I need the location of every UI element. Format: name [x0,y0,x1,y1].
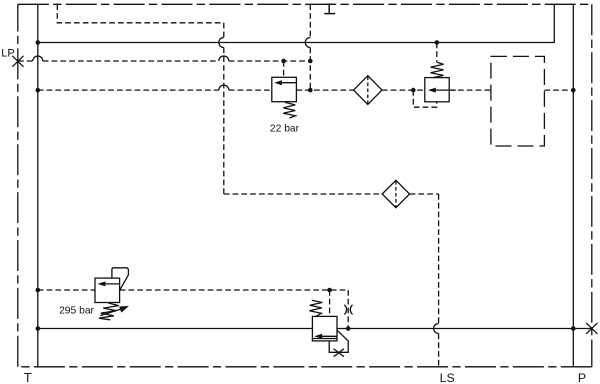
valve V3 flow arrow [100,283,119,285]
wire: pilot stub to valve V1 top [283,61,285,77]
wire: spring pilot line to valve V2 [436,43,438,63]
node: V2 drain tap [411,88,416,93]
enclosure border top edge (dash-dot) [18,3,592,5]
node: T line / pilot y=290 [36,288,41,293]
valve V3 (295 bar relief) body [95,278,120,302]
wire: pilot line vertical x=223.8 (hops over main line) [223,23,225,194]
node: P line / bottom main [571,326,576,331]
wire hop: LP line over T line [33,56,43,61]
valve V4 bypass loop with orifice [329,330,348,352]
wire: pilot line from block B1 to P line [544,89,573,91]
wire: top main solid line to P side [38,4,555,42]
measuring port M symbol (top) [324,4,335,13]
wire hop: LP line over pilot vertical [219,56,229,61]
wire: bottom pilot line y=290 (T line to valve V3) [38,289,95,291]
wire hop: pilot vertical over top main line [305,38,310,48]
valve V4 spring [309,300,322,316]
wire: pilot stub to valve V4 top [329,290,331,316]
wire hop: pilot y=90 over pilot vertical [219,85,229,90]
valve V2 spring [431,62,444,77]
svg-text:LP: LP [1,47,14,59]
restrictor (venturi) on pilot drop [344,305,352,315]
wire: pilot drop to restrictor and bottom main line [347,290,349,329]
node: block B1 output on P line [571,88,576,93]
wire: bottom pilot line y=290 (valve V3 to corner) [120,289,349,291]
svg-text:P: P [578,371,586,384]
port P plug X symbol [586,323,597,334]
node: V1 pilot tap on LP line [281,59,286,64]
valve V1 flow arrow [278,82,297,84]
block B1 (dashed component rectangle) [491,56,545,146]
orifice X symbol [334,349,345,356]
valve V1 (22 bar relief) body [272,77,297,101]
valve V1 spring [283,102,295,118]
valve V2 (pressure reducing) body [425,78,449,102]
svg-text:295 bar: 295 bar [59,306,94,317]
filter F1 [354,76,382,105]
valve V3 spring [99,303,119,320]
wire: LS pilot line vertical (hops over bottom main line) [438,194,440,367]
node: LP line end at vertical pilot [308,59,313,64]
valve V4 (pilot operated relief) body [312,316,337,341]
wire: P line vertical solid [572,4,574,367]
wire: pilot line from valve V1 to filter F1 [296,89,353,91]
node: vertical pilot / pilot y=90 [308,88,313,93]
node: T line / bottom main [36,326,41,331]
wire: LP pilot line (dashed, hops over T line and vertical pilot) [18,60,310,62]
node: V2 spring line on top main [435,40,440,45]
wire: pilot line from filter F2 to LS corner [410,193,439,195]
node: T line / pilot y=90 [36,88,41,93]
svg-text:22 bar: 22 bar [270,124,300,135]
wire: top-left pilot line (dashed, from border down and right) [57,4,224,23]
enclosure border right edge (dash-dot) [591,4,593,367]
wire: T line vertical solid [37,4,39,367]
wire: pilot line from filter F1 to valve V2 [382,89,425,91]
wire: pilot vertical from top border to pilot node [309,4,311,90]
wire: pilot line from valve V2 to block B1 [449,89,491,91]
enclosure border bottom edge (dash-dot) [18,366,592,368]
wire hop: pilot vertical over top main line [219,38,224,48]
valve V4 seat line [312,338,337,340]
port LP plug X symbol [12,56,23,67]
valve V2 flow arrow [434,89,456,91]
valve V3 adjustment arrow [100,309,121,316]
wire: pilot line y=90 from T line to valve V1 [38,89,272,91]
valve V4 flow arrow [317,335,337,337]
svg-text:T: T [24,370,32,384]
valve V3 pilot hook [112,268,128,291]
node: T line / top main [36,40,41,45]
node: V4 pilot tap [327,288,332,293]
wire hop: LS line over bottom main line [434,324,439,334]
svg-text:LS: LS [440,371,455,384]
enclosure border left edge (dash-dot) [17,4,19,367]
wire: pilot line to filter F2 [224,193,382,195]
wire: bottom main solid line (left of valve V4) [38,328,313,330]
node: restrictor branch on bottom main [346,326,351,331]
wire: bottom main solid line (right of valve V4) [337,328,592,330]
filter F2 [382,180,409,207]
wire: valve V2 drain loop (dashed) [413,90,437,107]
